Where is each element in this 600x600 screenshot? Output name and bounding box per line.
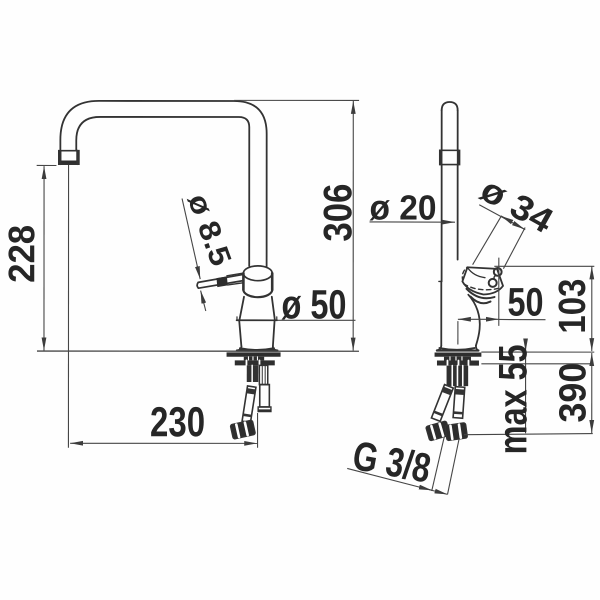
dim 390	[591, 353, 593, 433]
svg-text:max 55: max 55	[491, 344, 535, 454]
spout outer contour (left view)	[60, 101, 266, 267]
spout inner contour (left view)	[76, 117, 249, 266]
svg-text:306: 306	[316, 184, 360, 242]
svg-text:ø 34: ø 34	[474, 170, 560, 241]
hose 2 end nut (right view)	[445, 423, 468, 441]
svg-text:230: 230	[150, 398, 205, 445]
hose 1 end nut (right view)	[426, 421, 450, 441]
dim o8.5 line b	[201, 291, 206, 311]
lever rod (left view)	[198, 275, 242, 283]
dim line 228	[43, 166, 45, 350]
ext line 228 top	[37, 164, 57, 166]
mounting flange plate (right view)	[435, 352, 482, 356]
dim 103	[591, 266, 593, 351]
cartridge bottom arc	[243, 290, 272, 297]
flexible hose 1 (right view)	[431, 385, 453, 422]
foot (right view)	[437, 346, 441, 351]
dim o8.5 line a	[182, 198, 200, 279]
dim o34 ext 2	[503, 227, 525, 268]
svg-text:390: 390	[552, 363, 594, 423]
mounting nut plate (right view)	[437, 360, 479, 365]
dim o20	[370, 221, 456, 223]
skirt sides	[239, 320, 241, 346]
G3/8 dim line	[347, 468, 447, 494]
max55 top arrow	[525, 339, 527, 351]
foot flare	[237, 346, 242, 350]
cartridge housing top ellipse	[243, 266, 272, 281]
cartridge side walls	[242, 273, 245, 290]
hose end plane line	[464, 433, 593, 434]
spout column dome (right view)	[442, 102, 458, 111]
svg-text:ø 50: ø 50	[281, 281, 346, 327]
svg-text:ø 20: ø 20	[370, 189, 437, 228]
spout column tube (right view)	[441, 165, 443, 282]
handle body (right view)	[462, 267, 503, 294]
flexible hose 2 (right view)	[453, 387, 465, 419]
dim line 306	[352, 101, 354, 351]
hose end nut G3/8 (left view)	[230, 420, 255, 439]
svg-text:103: 103	[552, 279, 594, 334]
svg-text:G 3/8: G 3/8	[349, 432, 434, 491]
ext line 230 right	[257, 413, 259, 448]
shank collar hatch (right view)	[444, 357, 471, 361]
handle screws (right view)	[494, 268, 502, 276]
body step (right view)	[439, 280, 442, 282]
lever sleeve dark band	[217, 276, 228, 287]
svg-text:50: 50	[507, 281, 543, 325]
max55 line	[525, 352, 527, 433]
threaded shank nuts (right view)	[447, 366, 469, 387]
flexible hose (left view)	[242, 386, 256, 422]
aerator block	[59, 151, 79, 165]
body cone (left view)	[239, 297, 244, 321]
ext 103 top	[494, 265, 594, 267]
shank collar hatch (left view)	[244, 357, 264, 361]
ext line 306 top	[234, 99, 359, 101]
dim o34 ext 1	[473, 217, 501, 265]
ext 103/390 middle	[481, 351, 594, 353]
dim 50 ext right	[498, 258, 500, 326]
mounting nut plate (left view)	[235, 360, 275, 365]
svg-text:228: 228	[1, 225, 42, 283]
G3/8 leader 2	[448, 439, 460, 494]
G3/8 leader 1	[432, 436, 445, 491]
supply pipe lower (left view)	[260, 385, 270, 407]
skirt top edge	[237, 319, 278, 321]
counter line	[37, 350, 359, 352]
dim 50 line	[458, 318, 499, 320]
ext line from aerator down (230 left)	[67, 165, 69, 448]
dim 50 ext left	[457, 321, 459, 344]
mounting flange plate (left view)	[227, 352, 281, 356]
threaded shank nut (left view)	[247, 365, 259, 382]
body right contour (right view)	[468, 295, 480, 346]
aerator collar (right view)	[440, 150, 460, 164]
supply pipe upper (left view)	[259, 365, 267, 384]
dim line 230	[70, 442, 257, 444]
leader o50	[277, 319, 355, 321]
dim o34 line	[479, 205, 525, 230]
ext line below flange (right view)	[481, 363, 593, 365]
